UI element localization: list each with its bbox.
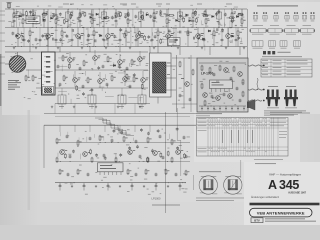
can pin wires	[158, 47, 176, 104]
transistor TM2	[93, 50, 101, 65]
resistor RE3	[91, 157, 93, 163]
parts panel light zone	[248, 2, 320, 114]
resistor RT8	[237, 28, 242, 47]
resistor RE1	[56, 157, 58, 163]
wire title area separator	[240, 160, 242, 178]
svg-text:A 345: A 345	[268, 178, 299, 192]
ground	[129, 47, 131, 50]
svg-text:LP-1000: LP-1000	[201, 72, 213, 76]
wire bus rowA	[56, 142, 190, 144]
foil trace terminal dark blob	[43, 87, 54, 95]
cable mid	[248, 89, 263, 90]
big table footnote	[254, 158, 283, 161]
wire tier junction V3	[89, 47, 91, 53]
wire long bus upper	[44, 113, 196, 115]
svg-text:AUSGABE 1967: AUSGABE 1967	[288, 191, 307, 194]
capacitor CA1	[179, 94, 182, 98]
ground	[73, 106, 75, 109]
capacitor CB1	[213, 73, 216, 77]
stage cluster TC9	[101, 9, 106, 28]
IC box A290D	[98, 163, 124, 175]
capacitor CB6	[239, 99, 242, 103]
wire tier junction V7	[209, 47, 211, 56]
stage cluster TC15	[177, 9, 182, 28]
ground	[13, 47, 15, 50]
wire schematic right border	[247, 9, 249, 58]
capacitor CE4	[87, 173, 90, 177]
ground G2	[71, 185, 73, 188]
capacitor CD2	[66, 135, 69, 139]
capacitor CT7	[119, 28, 122, 47]
ground G4	[95, 185, 97, 188]
ground G8	[143, 185, 145, 188]
part icon trimmer P3	[274, 12, 278, 21]
ground	[117, 106, 119, 109]
wire tier junction V6	[179, 47, 181, 56]
antenna input	[7, 3, 12, 10]
capacitor CT5	[87, 28, 90, 47]
top tier band gap infill	[11, 4, 242, 46]
staircase wires	[95, 118, 134, 135]
resistor RE10	[185, 155, 188, 159]
capacitor CF3	[83, 183, 86, 191]
part icon coil former K4	[294, 41, 301, 49]
stage cluster TC1	[13, 9, 18, 28]
transistor TM6	[98, 72, 106, 88]
wire column A	[176, 55, 178, 112]
transistor T3	[76, 28, 84, 47]
capacitor CM6	[82, 85, 85, 89]
transistor TM1	[68, 52, 76, 67]
transistor TM3	[118, 54, 126, 69]
title AUSGABE 1967	[288, 191, 307, 194]
capacitor CB2	[230, 77, 233, 81]
wire column B	[183, 58, 185, 108]
resistor RD11	[171, 139, 176, 145]
wire tier junction V8	[239, 47, 241, 56]
tuning indicator channel box	[42, 9, 56, 95]
capacitor CT9	[151, 28, 154, 47]
transistor TD4	[153, 151, 161, 156]
resistor RD5	[99, 135, 104, 141]
capacitor CB5	[223, 93, 226, 97]
transistor T5	[136, 28, 144, 47]
ground	[139, 106, 141, 109]
transistor TD2	[83, 152, 91, 157]
title aenderungen note	[251, 196, 279, 199]
part icon filter F4	[300, 25, 315, 34]
resistor RM3	[107, 56, 112, 63]
resistor RB3	[219, 65, 221, 71]
resistor RB4	[233, 66, 235, 72]
big table row labels	[198, 118, 207, 152]
transistor TA1	[181, 78, 189, 86]
wire bus mid3	[36, 87, 148, 89]
resistor RE9	[171, 157, 173, 163]
capacitor CA2	[189, 98, 192, 102]
top margin part labels	[63, 3, 232, 6]
resistor RE4	[103, 154, 106, 158]
capacitor CM2	[79, 67, 82, 71]
resistor RF9	[165, 169, 169, 175]
resistor RM9	[32, 75, 37, 82]
stage cluster TC6	[65, 9, 70, 28]
capacitor CT10	[175, 28, 178, 47]
part icon trimmer P2	[263, 12, 267, 21]
capacitor CM3	[102, 65, 105, 69]
capacitor CF1	[59, 183, 62, 191]
bottom board infill pass	[58, 127, 185, 162]
socket note lines	[264, 111, 310, 116]
socket bottom view S1	[266, 86, 280, 108]
capacitor CT4	[71, 28, 74, 47]
wire mid bus	[5, 46, 247, 48]
transistor TB3	[228, 94, 233, 99]
IF coil L1	[58, 88, 66, 109]
ground	[201, 47, 203, 50]
title small line VHF Autoempfaenger	[269, 172, 301, 176]
mid tier infill mesh	[58, 55, 148, 104]
capacitor CD12	[183, 136, 186, 140]
capacitor CT11	[203, 28, 206, 47]
table area light zone	[194, 110, 300, 162]
capacitor CF5	[107, 183, 110, 191]
part icon filter F2	[267, 25, 283, 34]
transistor T1	[16, 28, 24, 47]
resistor RT3	[93, 28, 98, 47]
capacitor CD4	[89, 137, 92, 141]
resistor RT2	[61, 28, 66, 47]
wire tier junction V5	[149, 47, 151, 56]
transistor TD5	[176, 150, 184, 155]
stage cluster TC7	[79, 9, 84, 28]
winding caption line2	[196, 199, 234, 202]
stage cluster TC20	[238, 9, 245, 28]
wire bus mid2	[26, 69, 148, 71]
stage cluster TC12	[138, 9, 143, 28]
capacitor CT3	[55, 28, 58, 47]
stage cluster TC13	[153, 9, 158, 28]
small voltage table	[261, 59, 312, 77]
cable lower	[248, 100, 262, 101]
transistor TB5	[224, 68, 229, 73]
winding caption line1	[196, 197, 244, 200]
resistor RM10	[25, 75, 30, 82]
part icon coil former K3	[280, 41, 287, 49]
resistor RT7	[213, 28, 218, 47]
wire bus rowB	[56, 161, 190, 163]
resistor RF3	[77, 169, 81, 175]
capacitor CF7	[131, 183, 134, 191]
part icon trimmer P1	[253, 12, 257, 21]
transistor TD3	[128, 150, 136, 155]
wire vertical third	[193, 175, 195, 190]
stage cluster TC18	[216, 9, 221, 28]
ground	[177, 47, 179, 50]
schematic paper light zone	[2, 2, 252, 115]
resistor RT4	[125, 28, 130, 47]
ground G6	[119, 185, 121, 188]
stage cluster TC5	[52, 9, 59, 28]
capacitor CE10	[175, 173, 178, 177]
ground	[225, 47, 227, 50]
board bottom bus	[199, 105, 246, 107]
transistor TM7	[123, 70, 131, 86]
title note line above	[255, 162, 276, 165]
wire tier junction V1	[29, 47, 31, 53]
capacitor CT13	[235, 28, 238, 47]
part icon filter F3	[284, 25, 300, 34]
ground	[81, 47, 83, 50]
top tier mesh stubs	[13, 10, 242, 50]
vertical wire descent	[60, 125, 150, 132]
resistor RB8	[204, 100, 206, 106]
part icon filter F1	[250, 25, 267, 34]
ground	[243, 47, 245, 50]
resistor RM7	[111, 75, 116, 82]
big parts table heading left	[196, 113, 222, 116]
resistor RA1	[179, 61, 181, 68]
capacitor CE8	[155, 173, 158, 177]
resistor RD7	[123, 136, 128, 142]
board top bus	[199, 62, 246, 64]
capacitor CF9	[155, 183, 158, 191]
capacitor CT2	[39, 28, 42, 47]
IF coil L4	[138, 88, 146, 109]
ground	[35, 47, 37, 50]
junction dots scatter	[13, 8, 237, 183]
IF coil L3	[118, 88, 126, 109]
resistor RM1	[62, 55, 67, 62]
block label box module M2	[168, 38, 181, 46]
wire top supply bus	[5, 8, 247, 10]
winding diagrams heading	[199, 170, 221, 173]
svg-text:VEB ANTENNENWERKE: VEB ANTENNENWERKE	[257, 211, 305, 216]
capacitor CM4	[126, 67, 129, 71]
cable to loudspeaker upper	[248, 65, 263, 66]
board pin row	[201, 106, 245, 111]
capacitor CF11	[179, 183, 182, 191]
core winding diagram W2	[224, 176, 242, 194]
title A345	[268, 178, 299, 192]
screened can outline	[150, 53, 172, 97]
left margin fold shading	[28, 110, 31, 210]
stage cluster TC11	[124, 9, 131, 28]
resistor RF5	[127, 169, 131, 175]
resistor RT1	[29, 28, 34, 47]
vertical cable	[257, 78, 258, 90]
wire bus mid1	[5, 51, 148, 53]
capacitor CD8	[135, 140, 138, 144]
wire long bus upper2	[55, 116, 190, 118]
stage cluster TC19	[231, 9, 236, 28]
schematic paper light zone lower	[40, 115, 252, 202]
top tier infill second pass	[11, 9, 242, 47]
resistor RT5	[157, 28, 162, 47]
AF amplifier board LP-1000	[197, 58, 248, 112]
stage cluster TC3	[30, 9, 35, 28]
resistor RM4	[131, 59, 136, 66]
transistor TM5	[73, 71, 81, 87]
wire long vertical right of board	[164, 112, 166, 213]
wire bottom board bus	[55, 182, 186, 184]
svg-text:Änderungen vorbehalten!: Änderungen vorbehalten!	[251, 196, 279, 199]
capacitor CE2	[67, 173, 70, 177]
capacitor CB3	[236, 87, 239, 91]
capacitor CM5	[59, 83, 62, 87]
maker address lines	[265, 218, 316, 221]
transistor TB1	[203, 93, 208, 98]
capacitor CM7	[106, 83, 109, 87]
resistor RA2	[192, 69, 194, 76]
screened can crosshatch core	[153, 62, 167, 93]
IC module box U10	[210, 80, 233, 92]
wire inter-tier links	[55, 104, 135, 114]
IF coil L2	[88, 88, 96, 109]
parts panel heading	[257, 5, 298, 6]
resistor RE8	[162, 156, 165, 160]
resistor RE6	[139, 155, 142, 159]
resistor RB1	[201, 65, 203, 71]
ground	[153, 47, 155, 50]
transistor TB2	[216, 96, 221, 101]
capacitor CT12	[221, 28, 224, 47]
resistor RD9	[147, 137, 152, 143]
resistor RB6	[242, 91, 244, 97]
title black bar	[250, 203, 320, 206]
transistor TD1	[60, 150, 68, 155]
resistor RB7	[201, 83, 203, 89]
label LP1000 board	[152, 197, 162, 201]
socket bottom view S2	[284, 86, 298, 108]
part icon trimmer P7	[310, 12, 314, 21]
svg-text:VHF — Autoempfänger: VHF — Autoempfänger	[269, 172, 301, 176]
board outline LP-1200	[44, 125, 196, 168]
wire bus mid4	[55, 103, 150, 105]
capacitor CD10	[159, 135, 162, 139]
label LP-1000	[201, 72, 213, 76]
mid tier infill second pass	[28, 63, 146, 98]
maker logo box	[251, 218, 263, 223]
maker oval VEB ANTENNENWERKE	[250, 208, 313, 217]
capacitor CT1	[23, 28, 26, 47]
wire vertical second	[177, 108, 181, 176]
top tier infill components	[14, 10, 245, 21]
part icon coil former K1	[252, 41, 263, 49]
transistor TM4	[138, 51, 146, 66]
wire top bus 2	[5, 27, 247, 29]
transistor T6	[166, 28, 174, 47]
resistor RM5	[63, 75, 68, 82]
part icon trimmer P6	[302, 12, 306, 21]
resistor RF1	[59, 169, 63, 175]
ground	[105, 47, 107, 50]
resistor RE5	[115, 157, 117, 163]
part icon trimmer P5	[294, 12, 298, 21]
speaker crosshatched circle	[5, 52, 26, 72]
stage cluster TC10	[115, 9, 120, 28]
part icon trimmer P4	[285, 12, 289, 21]
resistor RE7	[147, 157, 149, 163]
resistor RT6	[187, 28, 192, 47]
left edge entry stubs	[0, 11, 5, 74]
table heading note	[262, 55, 302, 58]
resistor RM2	[83, 60, 88, 67]
wire tier junction V2	[59, 47, 61, 53]
left edge dark sliver	[0, 54, 1, 106]
stage cluster TC8	[88, 9, 95, 28]
part icon coil former K2	[269, 41, 276, 49]
capacitor CT8	[135, 28, 138, 47]
ground	[51, 106, 53, 109]
svg-text:BTV: BTV	[254, 219, 260, 223]
big table cell entries	[209, 118, 287, 152]
resistor RM8	[133, 76, 138, 83]
caption under board	[152, 204, 180, 207]
ground	[57, 47, 59, 50]
resistor RB2	[209, 67, 211, 73]
resistor RF11	[185, 170, 189, 176]
component value labels scatter	[8, 11, 246, 195]
ground	[95, 106, 97, 109]
resistor RD1	[56, 138, 61, 144]
connector dots	[263, 65, 265, 102]
stage cluster TC2	[19, 9, 26, 28]
resistor RF7	[145, 169, 149, 175]
wire column C	[190, 55, 192, 112]
transistor T2	[46, 28, 54, 47]
capacitor CM1	[57, 65, 60, 69]
transistor TB4	[238, 72, 243, 77]
capacitor CM8	[129, 85, 132, 89]
resistor RE2	[69, 155, 72, 159]
stage cluster TC17	[202, 9, 209, 28]
part icon core trio	[263, 51, 291, 54]
capacitor CB4	[211, 95, 214, 99]
ground G10	[167, 185, 169, 188]
note text block	[8, 80, 21, 90]
stage cluster TC4	[43, 9, 48, 28]
transistor TM8	[141, 71, 149, 87]
core winding diagram W1	[199, 176, 217, 194]
svg-text:LP1000: LP1000	[152, 197, 162, 201]
big parts table grid	[197, 118, 289, 157]
wire tier junction V4	[119, 47, 121, 53]
transistor T4	[106, 28, 114, 47]
capacitor CD6	[111, 139, 114, 143]
resistor RB5	[242, 79, 244, 85]
transistor T7	[196, 28, 204, 47]
transistor T8	[226, 28, 234, 47]
loudspeaker symbol	[247, 100, 255, 111]
resistor RD3	[77, 140, 82, 146]
title area light zone	[244, 162, 320, 225]
block label box module M1	[26, 16, 40, 24]
stage cluster TC16	[192, 9, 197, 28]
big parts table heading right	[270, 112, 302, 115]
capacitor CE6	[135, 173, 138, 177]
wire link to AF board	[172, 58, 197, 104]
resistor RM6	[87, 77, 92, 84]
capacitor CT6	[103, 28, 106, 47]
stage cluster TC14	[163, 9, 170, 28]
